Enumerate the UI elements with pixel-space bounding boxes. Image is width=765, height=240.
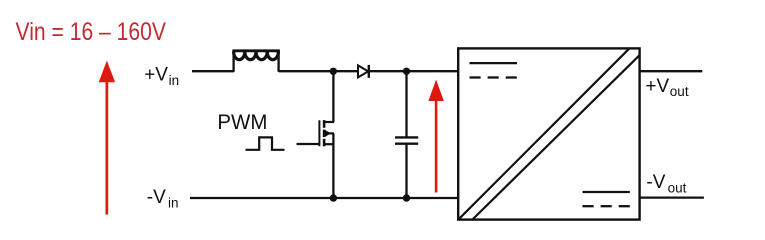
svg-text:in: in [169, 73, 180, 88]
junction dot: source node on bottom rail [330, 194, 337, 201]
wire: +Vout output [640, 70, 703, 72]
capacitor C1 [395, 137, 418, 143]
wire: drain vertical [332, 71, 334, 122]
DC symbol (output side): solid bar [583, 191, 630, 193]
svg-text:PWM: PWM [217, 110, 267, 134]
wire: -Vout output [640, 196, 704, 198]
capacitor C1 top lead [405, 71, 407, 136]
wire: +Vin to inductor [192, 70, 234, 72]
capacitor C1 bottom lead [405, 145, 407, 198]
transistor Q1 (N-MOSFET) [319, 120, 334, 146]
converter block U1 [458, 48, 639, 219]
svg-text:+V: +V [144, 65, 168, 86]
junction dot: capacitor bottom node [403, 194, 410, 201]
svg-text:+V: +V [645, 76, 669, 97]
DC symbol (input side): solid bar [470, 62, 518, 64]
DC symbol (input side): dashed bar [470, 76, 517, 78]
input voltage arrow (red, left) [99, 61, 115, 215]
svg-text:-V: -V [646, 172, 665, 193]
wire: source vertical to bottom rail [332, 144, 334, 198]
wire: gate lead [297, 143, 321, 145]
junction dot: capacitor top node [403, 68, 410, 75]
svg-text:out: out [670, 84, 689, 99]
DC symbol (output side): dashed bar [583, 205, 630, 207]
svg-text:Vin = 16 – 160V: Vin = 16 – 160V [16, 18, 167, 46]
junction dot: drain node on top rail [330, 68, 337, 75]
converter diagonal line 2 [473, 55, 640, 219]
svg-text:-V: -V [147, 187, 166, 208]
wire: inductor to diode [279, 70, 358, 72]
diode D1 [358, 65, 369, 78]
inductor L1 [232, 50, 279, 72]
svg-text:out: out [668, 180, 687, 195]
output voltage arrow (red, middle) [428, 80, 443, 193]
svg-text:in: in [168, 195, 179, 210]
converter diagonal line 1 [459, 49, 629, 219]
wire: diode to converter block [370, 70, 459, 72]
PWM pulse waveform [246, 137, 285, 149]
wire: bottom rail [190, 197, 459, 199]
